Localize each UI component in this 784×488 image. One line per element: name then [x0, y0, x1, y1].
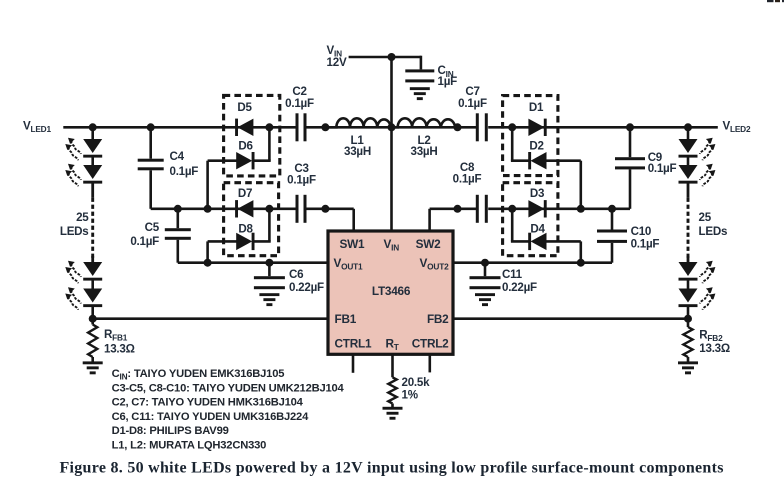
capacitor CIN	[405, 69, 434, 82]
LED left 3 light rays	[68, 261, 81, 277]
top-right page artifact	[767, 0, 784, 2]
svg-text:20.5k: 20.5k	[402, 376, 431, 389]
svg-text:SW2: SW2	[416, 237, 442, 251]
ground RT	[383, 407, 403, 420]
svg-text:25: 25	[699, 211, 712, 224]
wire LED string left dashed continuation	[91, 198, 94, 258]
node rail2 x580	[577, 205, 585, 213]
svg-text:CTRL2: CTRL2	[412, 336, 449, 350]
node FB1	[89, 315, 97, 323]
node rail1 x512	[508, 123, 516, 131]
dashed box D5 D6	[224, 95, 280, 175]
node rail2 x512	[508, 205, 516, 213]
svg-text:D1: D1	[529, 101, 544, 114]
wire D7-D8 junction	[268, 209, 271, 242]
LED right 1 light rays	[700, 138, 713, 154]
svg-text:D1-D8: PHILIPS BAV99: D1-D8: PHILIPS BAV99	[112, 425, 229, 437]
ground RFB2	[678, 361, 698, 374]
capacitor C7	[476, 113, 488, 141]
svg-text:C6: C6	[289, 268, 304, 281]
wire VIN riser	[390, 57, 393, 233]
svg-text:C11: C11	[502, 268, 523, 281]
LED left 4 light rays	[68, 287, 81, 303]
svg-text:CTRL1: CTRL1	[335, 336, 372, 350]
wire CTRL2 stub	[428, 354, 431, 372]
svg-text:0.1µF: 0.1µF	[170, 165, 199, 178]
diode D3	[528, 200, 546, 217]
wire D2 anode return	[544, 159, 580, 162]
diode D8	[236, 233, 254, 250]
wire C9 branch	[629, 127, 632, 157]
svg-text:D6: D6	[238, 140, 253, 153]
capacitor C3	[296, 195, 307, 223]
svg-text:0.1µF: 0.1µF	[287, 174, 316, 187]
svg-text:L1, L2: MURATA LQH32CN330: L1, L2: MURATA LQH32CN330	[112, 440, 267, 452]
wire LED string right seg2	[687, 280, 690, 290]
LED right 1	[679, 139, 698, 158]
wire LED string left solid below dashes	[91, 256, 94, 263]
wire LED string left bottom	[91, 306, 94, 319]
LED left 1	[83, 139, 102, 158]
svg-text:0.1µF: 0.1µF	[458, 97, 487, 110]
svg-text:LT3466: LT3466	[372, 284, 411, 298]
svg-text:0.1µF: 0.1µF	[648, 162, 677, 175]
dashed box D1 D2	[503, 96, 558, 176]
wire LED string left seg	[91, 157, 94, 166]
capacitor C6	[254, 276, 285, 289]
inductor L2	[392, 118, 458, 127]
node rail1 x150	[147, 123, 155, 131]
LED left 2 light rays	[68, 164, 81, 180]
ground C6	[259, 293, 279, 306]
wire D5-D6 junction	[268, 127, 271, 160]
LED right 4	[679, 289, 698, 308]
wire VOUT1 rail	[178, 261, 330, 264]
svg-text:C2, C7: TAIYO YUDEN HMK316BJ10: C2, C7: TAIYO YUDEN HMK316BJ104	[112, 397, 304, 409]
wire LED string right solid above dashes	[687, 183, 690, 198]
resistor RT 20.5k	[388, 377, 396, 403]
capacitor C5	[165, 228, 191, 240]
node rail2 x207	[204, 205, 212, 213]
node rail2 x612	[608, 205, 616, 213]
wire rail1 left segment	[63, 126, 296, 129]
node vout2 x485	[481, 259, 489, 267]
svg-text:0.1µF: 0.1µF	[285, 97, 314, 110]
wire D6 anode return	[208, 159, 238, 162]
wire RT	[391, 354, 394, 377]
wire CTRL1 stub	[352, 354, 355, 373]
node rail1 x391	[388, 123, 396, 131]
svg-text:33µH: 33µH	[344, 145, 371, 158]
node rail1 x630	[626, 123, 634, 131]
svg-text:Figure 8. 50 white LEDs powere: Figure 8. 50 white LEDs powered by a 12V…	[60, 460, 724, 477]
node vout1 x269	[265, 259, 273, 267]
node vout1 x207	[204, 259, 212, 267]
wire D4 anode return	[544, 240, 580, 243]
diode D6	[236, 152, 254, 169]
svg-text:LEDs: LEDs	[60, 225, 89, 238]
svg-text:D8: D8	[238, 222, 253, 235]
svg-text:12V: 12V	[327, 56, 347, 69]
wire D8 anode return	[208, 240, 238, 243]
dashed box D3 D4	[503, 183, 558, 256]
wire CIN stub	[420, 56, 423, 70]
wire VIN top	[349, 56, 421, 59]
wire C11 stub	[484, 263, 487, 277]
svg-text:D3: D3	[530, 187, 545, 200]
wire LED string right solid below dashes	[687, 256, 690, 263]
wire FB1 rail	[93, 317, 330, 320]
node rail2 x269	[265, 205, 273, 213]
LED left 4	[83, 289, 102, 308]
wire C10 branch	[611, 209, 614, 230]
wire LED string right dashed continuation	[687, 198, 690, 258]
svg-text:1%: 1%	[402, 389, 418, 402]
dashed box D7 D8	[224, 183, 279, 256]
svg-text:CIN: TAIYO YUDEN EMK316BJ105: CIN: TAIYO YUDEN EMK316BJ105	[112, 368, 285, 381]
wire SW2 jog	[428, 209, 431, 233]
LED right 2 light rays	[700, 164, 713, 180]
svg-text:LEDs: LEDs	[699, 225, 728, 238]
wire D3-D4 junction	[511, 209, 514, 242]
wire LED string right seg	[687, 157, 690, 166]
capacitor C10	[597, 230, 627, 243]
svg-text:0.1µF: 0.1µF	[631, 238, 660, 251]
svg-text:0.22µF: 0.22µF	[502, 281, 537, 294]
node vout2 x580	[577, 259, 585, 267]
svg-text:SW1: SW1	[340, 237, 366, 251]
svg-text:0.22µF: 0.22µF	[289, 281, 324, 294]
svg-text:C3-C5, C8-C10: TAIYO YUDEN UMK: C3-C5, C8-C10: TAIYO YUDEN UMK212BJ104	[112, 382, 345, 394]
LED right 4 light rays	[700, 287, 713, 303]
svg-text:C10: C10	[631, 225, 652, 238]
svg-text:C4: C4	[170, 150, 185, 163]
svg-text:13.3Ω: 13.3Ω	[104, 343, 135, 356]
node rail1 x269	[265, 123, 273, 131]
node rail1 x457	[454, 123, 462, 131]
node FB2	[684, 315, 692, 323]
svg-text:25: 25	[76, 211, 89, 224]
svg-text:0.1µF: 0.1µF	[130, 235, 159, 248]
wire LED string left solid above dashes	[91, 183, 94, 198]
LED right 3 light rays	[700, 261, 713, 277]
ground C11	[475, 293, 495, 306]
resistor RFB2	[687, 319, 690, 327]
svg-text:FB1: FB1	[335, 312, 357, 326]
node VIN tee	[388, 53, 396, 61]
svg-text:D4: D4	[530, 222, 545, 235]
diode D1	[528, 119, 546, 136]
svg-text:FB2: FB2	[427, 312, 449, 326]
svg-text:C6, C11: TAIYO YUDEN UMK316BJ2: C6, C11: TAIYO YUDEN UMK316BJ224	[112, 411, 309, 423]
resistor RFB1	[91, 319, 94, 325]
wire D1-D2 junction	[511, 127, 514, 160]
diode D2	[528, 152, 546, 169]
capacitor C4	[138, 159, 164, 171]
svg-text:1µF: 1µF	[438, 75, 458, 88]
wire LED string left seg2	[91, 280, 94, 290]
svg-text:C5: C5	[145, 221, 160, 234]
LED left 2	[83, 165, 102, 184]
diode D4	[528, 233, 546, 250]
node rail2 x325	[321, 205, 329, 213]
LED left 1 light rays	[68, 138, 81, 154]
wire rail2 jog to SW1	[306, 208, 354, 211]
svg-text:33µH: 33µH	[411, 145, 438, 158]
wire FB2 rail	[451, 317, 688, 320]
capacitor C11	[470, 276, 501, 289]
wire LED string right bottom	[687, 306, 690, 319]
wire rail1 mid segment	[306, 126, 476, 129]
node rail2 x457	[454, 205, 462, 213]
node rail1 x688	[684, 123, 692, 131]
capacitor C9	[615, 157, 645, 169]
wire LED string left top	[91, 127, 94, 140]
diode D7	[235, 200, 253, 217]
capacitor C8	[476, 195, 488, 223]
node rail1 x92	[89, 123, 97, 131]
svg-text:13.3Ω: 13.3Ω	[699, 342, 730, 355]
LED left 3	[83, 262, 102, 281]
LED right 3	[679, 262, 698, 281]
LED right 2	[679, 165, 698, 184]
wire VOUT2 rail	[451, 261, 612, 264]
svg-text:D2: D2	[529, 140, 543, 153]
wire rail2 right segment	[488, 208, 630, 211]
wire C5 branch	[177, 209, 180, 228]
wire rail1 right segment	[488, 126, 718, 129]
ground CIN	[410, 87, 430, 100]
svg-text:0.1µF: 0.1µF	[453, 173, 482, 186]
node rail1 x325	[321, 123, 329, 131]
svg-text:D7: D7	[238, 187, 252, 200]
op-amp U1 LT3466 body	[328, 231, 453, 354]
inductor L1	[325, 118, 391, 127]
capacitor C2	[296, 113, 307, 141]
wire C4 branch	[149, 127, 152, 158]
wire rail2 left segment	[151, 208, 297, 211]
svg-text:D5: D5	[237, 101, 252, 114]
wire C6 stub	[268, 263, 271, 277]
wire LED string right top	[687, 127, 690, 140]
diode D5	[235, 119, 253, 136]
ground RFB1	[83, 361, 103, 374]
component notes	[112, 368, 345, 452]
node rail2 x177	[174, 205, 182, 213]
